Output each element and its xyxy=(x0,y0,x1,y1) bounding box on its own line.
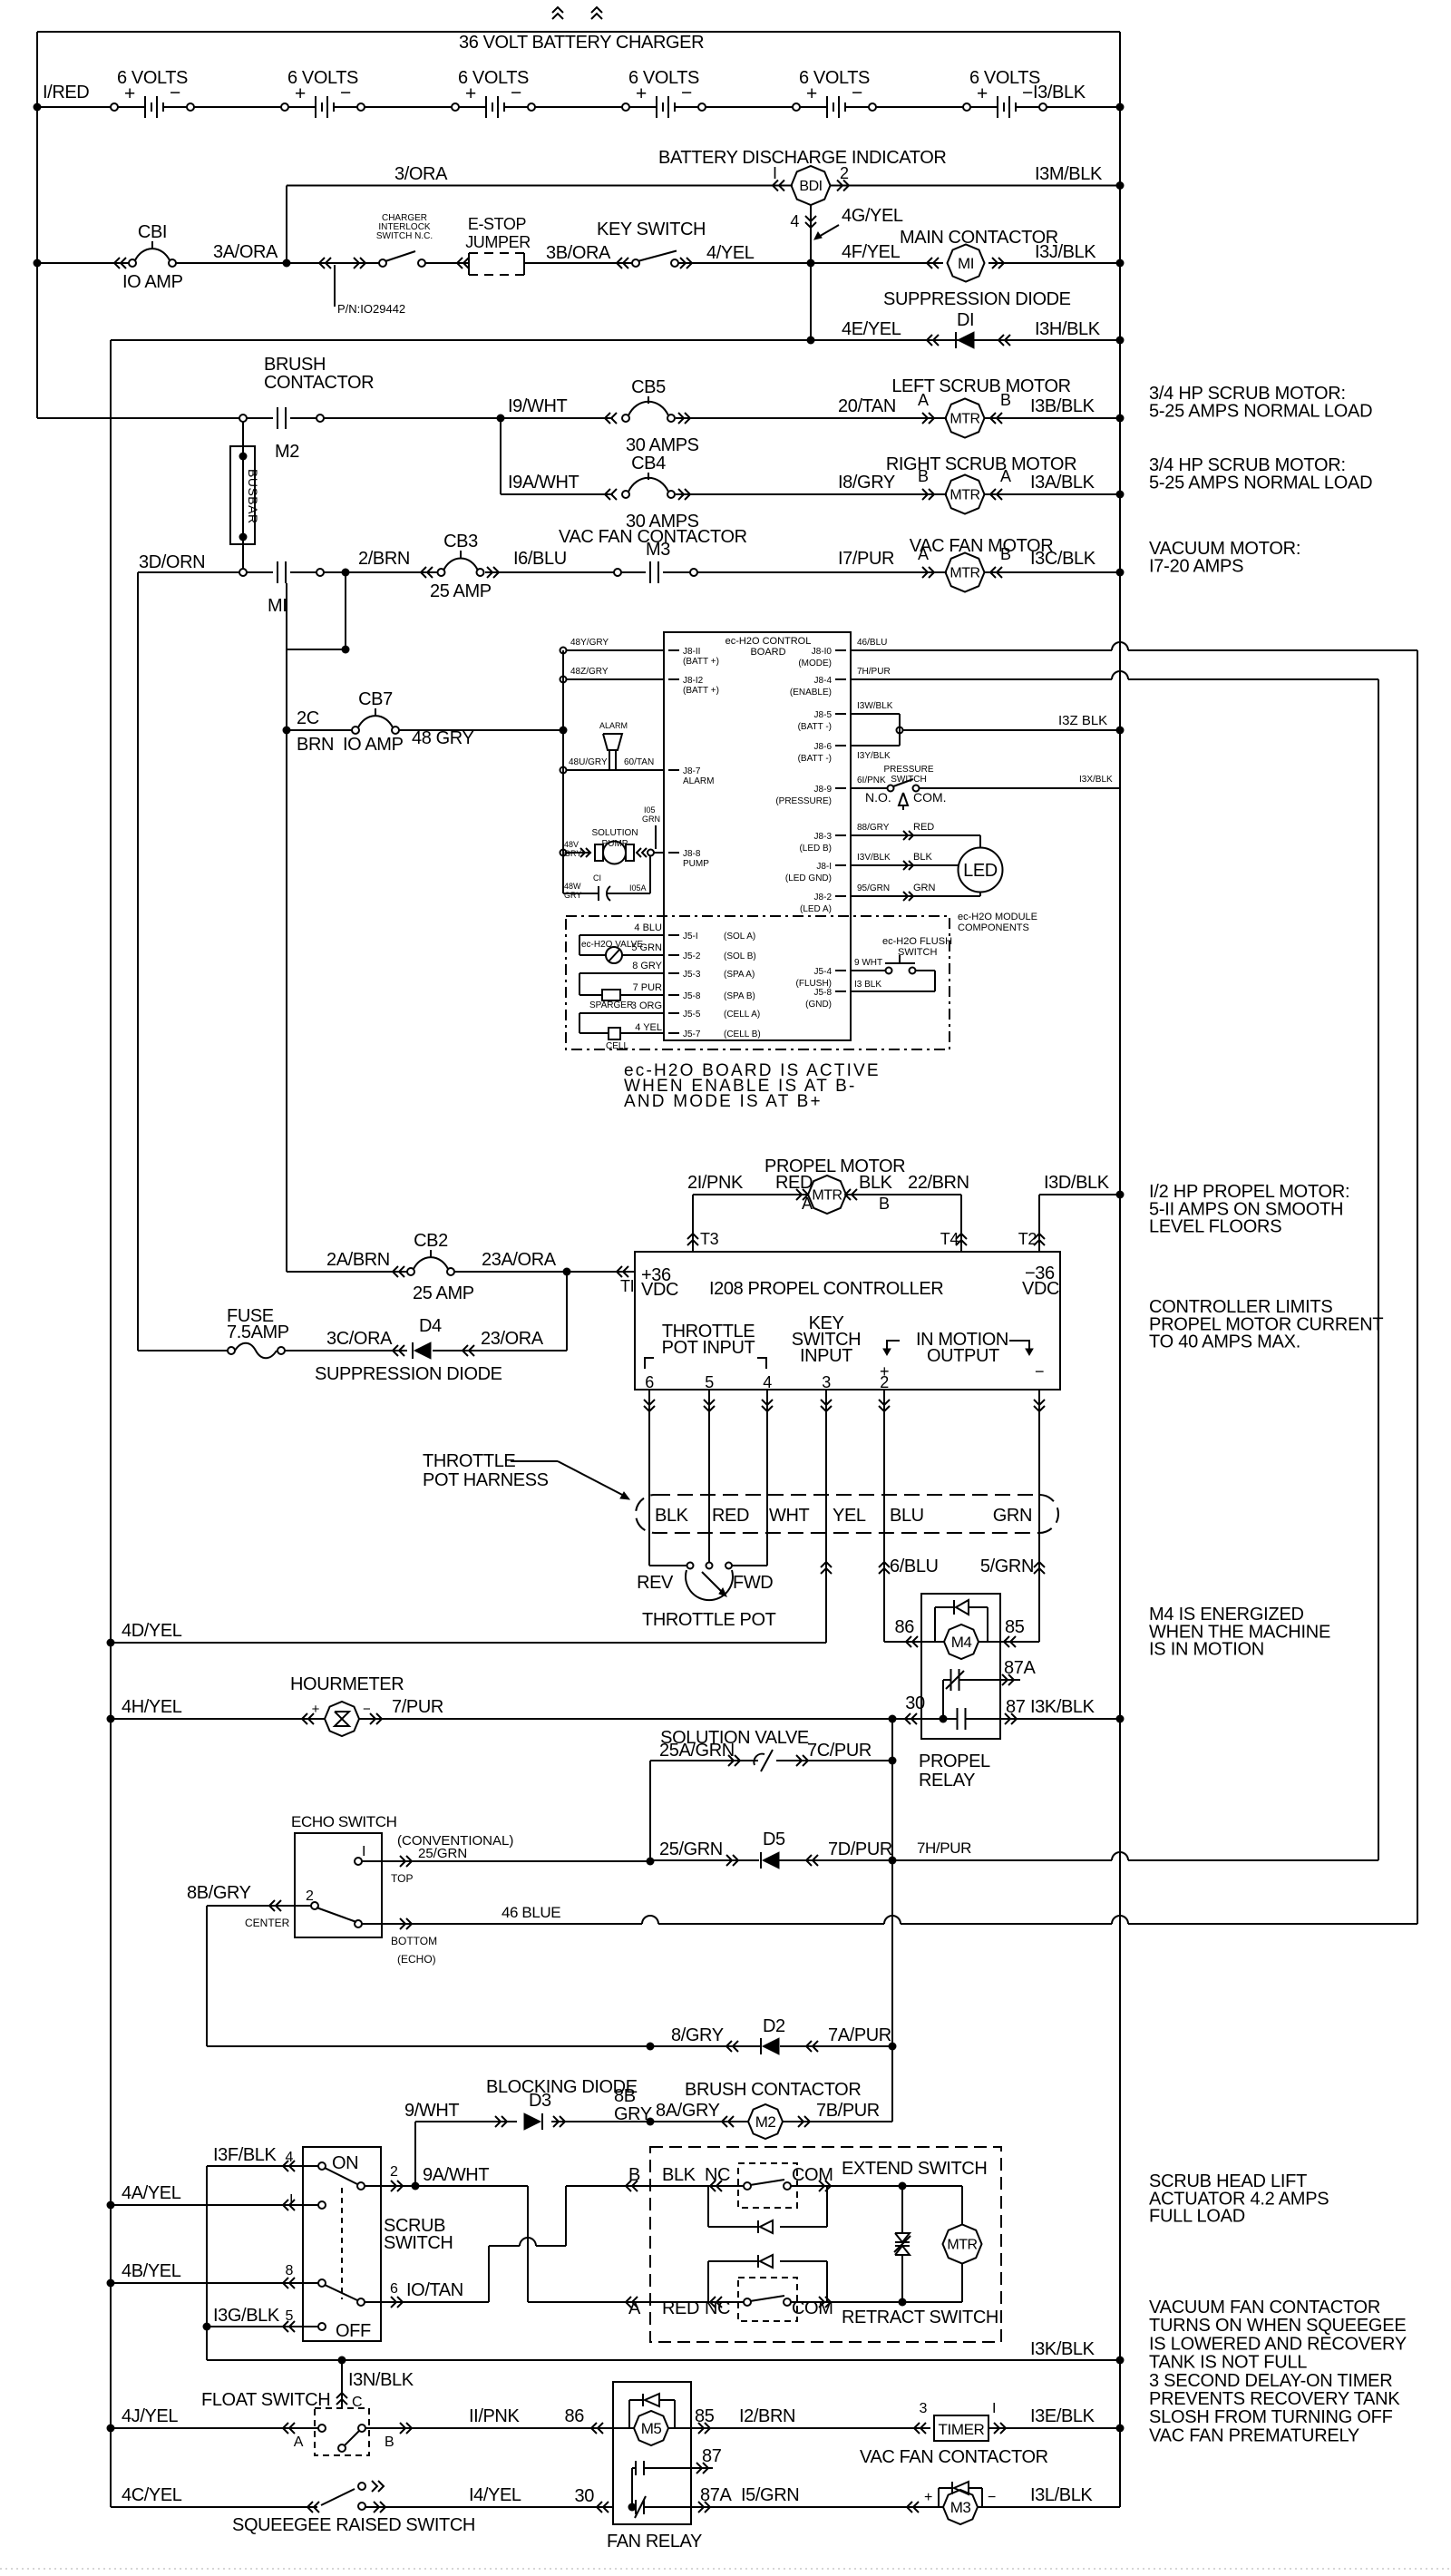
svg-text:3A/ORA: 3A/ORA xyxy=(213,242,278,262)
svg-text:RED: RED xyxy=(775,1173,813,1193)
svg-text:MI: MI xyxy=(958,255,974,272)
svg-text:I3G/BLK: I3G/BLK xyxy=(213,2306,280,2326)
svg-text:I3V/BLK: I3V/BLK xyxy=(857,853,891,863)
svg-text:M5: M5 xyxy=(641,2420,662,2437)
svg-text:5 GRN: 5 GRN xyxy=(631,942,662,953)
svg-text:BRUSH CONTACTOR: BRUSH CONTACTOR xyxy=(685,2080,861,2100)
svg-text:J8-I2: J8-I2 xyxy=(683,676,704,686)
svg-text:ALARM: ALARM xyxy=(599,721,628,730)
svg-text:RED: RED xyxy=(712,1506,749,1526)
svg-text:60/TAN: 60/TAN xyxy=(624,757,654,767)
svg-text:48Z/GRY: 48Z/GRY xyxy=(570,667,609,677)
svg-text:(SOL A): (SOL A) xyxy=(724,932,755,942)
svg-text:46 BLUE: 46 BLUE xyxy=(502,1904,560,1921)
svg-text:LEFT SCRUB MOTOR: LEFT SCRUB MOTOR xyxy=(891,376,1070,396)
svg-text:J5-7: J5-7 xyxy=(683,1029,701,1039)
svg-text:D5: D5 xyxy=(763,1830,785,1849)
svg-text:ec-H2O CONTROL: ec-H2O CONTROL xyxy=(725,636,812,647)
svg-text:30: 30 xyxy=(905,1693,925,1713)
svg-text:CI: CI xyxy=(593,873,601,883)
svg-text:ECHO SWITCH: ECHO SWITCH xyxy=(291,1813,396,1830)
svg-text:D4: D4 xyxy=(419,1316,442,1336)
svg-text:YEL: YEL xyxy=(833,1506,866,1526)
svg-text:VAC FAN CONTACTOR: VAC FAN CONTACTOR xyxy=(860,2447,1048,2467)
svg-text:I3L/BLK: I3L/BLK xyxy=(1030,2485,1093,2505)
svg-text:I3W/BLK: I3W/BLK xyxy=(857,701,893,711)
svg-text:87: 87 xyxy=(1006,1697,1026,1717)
svg-text:I3F/BLK: I3F/BLK xyxy=(213,2145,278,2165)
svg-text:N.O.: N.O. xyxy=(865,790,891,805)
svg-text:MTR: MTR xyxy=(949,566,979,581)
svg-text:7A/PUR: 7A/PUR xyxy=(828,2025,891,2045)
svg-text:CB3: CB3 xyxy=(443,532,478,551)
svg-text:(BATT -): (BATT -) xyxy=(798,722,832,732)
svg-text:CENTER: CENTER xyxy=(245,1917,290,1929)
svg-text:POT HARNESS: POT HARNESS xyxy=(423,1470,549,1490)
svg-text:7D/PUR: 7D/PUR xyxy=(828,1839,892,1859)
svg-text:BRUSH: BRUSH xyxy=(264,355,326,375)
svg-text:9/WHT: 9/WHT xyxy=(404,2101,459,2121)
svg-text:B: B xyxy=(385,2435,394,2450)
svg-text:8A/GRY: 8A/GRY xyxy=(656,2101,720,2121)
svg-text:CONTACTOR: CONTACTOR xyxy=(264,373,374,393)
svg-text:BLK: BLK xyxy=(655,1506,689,1526)
svg-text:7.5AMP: 7.5AMP xyxy=(227,1322,289,1342)
svg-text:SUPPRESSION DIODE: SUPPRESSION DIODE xyxy=(883,289,1071,309)
svg-text:9A/WHT: 9A/WHT xyxy=(423,2165,489,2185)
svg-text:48Y/GRY: 48Y/GRY xyxy=(570,638,609,648)
svg-text:CELL: CELL xyxy=(606,1041,628,1051)
svg-text:VAC FAN MOTOR: VAC FAN MOTOR xyxy=(910,536,1054,556)
svg-text:SUPPRESSION DIODE: SUPPRESSION DIODE xyxy=(315,1364,502,1384)
svg-text:(SOL B): (SOL B) xyxy=(724,951,756,961)
svg-text:CB4: CB4 xyxy=(631,454,666,473)
svg-text:FLOAT SWITCH: FLOAT SWITCH xyxy=(201,2390,330,2410)
svg-text:88/GRY: 88/GRY xyxy=(857,823,890,833)
svg-text:4 YEL: 4 YEL xyxy=(635,1022,662,1033)
svg-text:TO 40 AMPS MAX.: TO 40 AMPS MAX. xyxy=(1149,1332,1300,1352)
svg-text:BATTERY DISCHARGE INDICATOR: BATTERY DISCHARGE INDICATOR xyxy=(658,148,946,168)
svg-text:25 AMP: 25 AMP xyxy=(430,581,492,601)
svg-text:MTR: MTR xyxy=(947,2238,977,2253)
svg-text:COM.: COM. xyxy=(913,790,947,805)
svg-text:SWITCH: SWITCH xyxy=(891,775,926,785)
svg-text:−: − xyxy=(1035,1362,1044,1381)
svg-text:22/BRN: 22/BRN xyxy=(908,1173,969,1193)
svg-text:LED: LED xyxy=(963,861,998,881)
svg-text:I3E/BLK: I3E/BLK xyxy=(1030,2406,1096,2426)
svg-text:J5-8: J5-8 xyxy=(683,991,701,1001)
svg-text:(BATT -): (BATT -) xyxy=(798,754,832,764)
svg-text:KEY SWITCH: KEY SWITCH xyxy=(597,220,706,239)
svg-text:87A: 87A xyxy=(700,2485,732,2505)
svg-text:I6/BLU: I6/BLU xyxy=(513,549,567,569)
svg-text:VACUUM FAN CONTACTOR: VACUUM FAN CONTACTOR xyxy=(1149,2298,1380,2317)
svg-text:COMPONENTS: COMPONENTS xyxy=(958,922,1029,933)
svg-text:J5-2: J5-2 xyxy=(683,951,701,961)
svg-text:2: 2 xyxy=(306,1888,314,1904)
svg-text:AND MODE IS AT B+: AND MODE IS AT B+ xyxy=(624,1092,823,1111)
svg-text:J5-3: J5-3 xyxy=(683,970,701,980)
svg-text:7B/PUR: 7B/PUR xyxy=(816,2101,880,2121)
svg-text:I3 BLK: I3 BLK xyxy=(854,980,881,990)
svg-text:4E/YEL: 4E/YEL xyxy=(842,319,901,339)
svg-text:REV: REV xyxy=(637,1573,674,1593)
svg-text:5-25 AMPS NORMAL LOAD: 5-25 AMPS NORMAL LOAD xyxy=(1149,473,1372,493)
svg-text:7/PUR: 7/PUR xyxy=(392,1697,443,1717)
svg-text:NC: NC xyxy=(705,2165,730,2185)
svg-text:J5-I: J5-I xyxy=(683,932,698,942)
svg-text:4B/YEL: 4B/YEL xyxy=(122,2261,181,2281)
svg-text:E-STOP: E-STOP xyxy=(468,215,527,233)
svg-text:TANK IS NOT FULL: TANK IS NOT FULL xyxy=(1149,2353,1307,2373)
svg-text:5-25 AMPS NORMAL LOAD: 5-25 AMPS NORMAL LOAD xyxy=(1149,401,1372,421)
svg-text:+: + xyxy=(312,1702,320,1717)
svg-text:3: 3 xyxy=(920,2401,928,2416)
svg-text:RELAY: RELAY xyxy=(919,1771,975,1791)
svg-text:(PRESSURE): (PRESSURE) xyxy=(775,796,832,806)
svg-text:6/BLU: 6/BLU xyxy=(890,1556,939,1576)
svg-text:I5/GRN: I5/GRN xyxy=(741,2485,799,2505)
svg-text:BLK: BLK xyxy=(662,2165,696,2185)
svg-text:VAC FAN PREMATURELY: VAC FAN PREMATURELY xyxy=(1149,2425,1359,2445)
svg-text:6 VOLTS: 6 VOLTS xyxy=(799,68,870,88)
svg-text:7H/PUR: 7H/PUR xyxy=(857,667,891,677)
svg-text:+: + xyxy=(924,2490,932,2505)
svg-text:48V: 48V xyxy=(564,840,579,849)
svg-text:36 VOLT BATTERY CHARGER: 36 VOLT BATTERY CHARGER xyxy=(459,33,704,53)
svg-text:2/BRN: 2/BRN xyxy=(358,549,410,569)
svg-text:25/GRN: 25/GRN xyxy=(659,1839,723,1859)
svg-text:48U/GRY: 48U/GRY xyxy=(569,757,608,767)
svg-text:4F/YEL: 4F/YEL xyxy=(842,242,901,262)
svg-text:BLU: BLU xyxy=(890,1506,924,1526)
svg-text:J8-2: J8-2 xyxy=(814,893,833,903)
svg-text:9 WHT: 9 WHT xyxy=(854,958,882,968)
svg-text:4J/YEL: 4J/YEL xyxy=(122,2406,178,2426)
svg-text:OUTPUT: OUTPUT xyxy=(927,1346,999,1366)
svg-text:T3: T3 xyxy=(700,1230,719,1248)
svg-text:6 VOLTS: 6 VOLTS xyxy=(287,68,358,88)
svg-text:3: 3 xyxy=(822,1373,831,1391)
svg-text:8: 8 xyxy=(286,2263,294,2278)
svg-text:IS IN MOTION: IS IN MOTION xyxy=(1149,1640,1264,1660)
svg-text:I: I xyxy=(992,2401,996,2416)
svg-text:I3B/BLK: I3B/BLK xyxy=(1030,396,1096,416)
svg-text:(GND): (GND) xyxy=(805,1000,832,1010)
svg-text:SLOSH FROM TURNING OFF: SLOSH FROM TURNING OFF xyxy=(1149,2407,1393,2427)
svg-text:M2: M2 xyxy=(275,442,299,462)
svg-text:4 BLU: 4 BLU xyxy=(634,922,662,933)
svg-text:M2: M2 xyxy=(755,2113,776,2131)
svg-text:MTR: MTR xyxy=(949,412,979,427)
svg-text:8/GRY: 8/GRY xyxy=(671,2025,724,2045)
svg-text:−: − xyxy=(988,2490,996,2505)
svg-text:(MODE): (MODE) xyxy=(798,659,832,668)
svg-text:I: I xyxy=(362,1844,365,1859)
svg-text:87: 87 xyxy=(702,2446,722,2466)
svg-text:P/N:IO29442: P/N:IO29442 xyxy=(337,302,405,316)
svg-text:I208 PROPEL CONTROLLER: I208 PROPEL CONTROLLER xyxy=(709,1279,943,1299)
svg-text:2C: 2C xyxy=(297,708,319,728)
svg-text:(BATT +): (BATT +) xyxy=(683,686,719,696)
svg-text:95/GRN: 95/GRN xyxy=(857,883,890,893)
svg-text:I4/YEL: I4/YEL xyxy=(469,2485,521,2505)
svg-text:23A/ORA: 23A/ORA xyxy=(482,1250,557,1270)
svg-text:I: I xyxy=(773,164,777,182)
svg-text:I7-20 AMPS: I7-20 AMPS xyxy=(1149,556,1243,576)
svg-text:J5-8: J5-8 xyxy=(814,988,833,998)
svg-text:I7/PUR: I7/PUR xyxy=(838,549,894,569)
svg-text:M3: M3 xyxy=(646,540,670,560)
svg-text:2I/PNK: 2I/PNK xyxy=(687,1173,744,1193)
svg-text:SOLUTION: SOLUTION xyxy=(591,828,638,838)
svg-text:BOARD: BOARD xyxy=(750,647,785,658)
svg-text:6 VOLTS: 6 VOLTS xyxy=(628,68,699,88)
svg-text:I3Y/BLK: I3Y/BLK xyxy=(857,751,891,761)
svg-text:VDC: VDC xyxy=(1022,1279,1059,1299)
svg-text:GRY: GRY xyxy=(564,849,581,858)
svg-text:(LED GND): (LED GND) xyxy=(785,873,832,883)
svg-text:6: 6 xyxy=(645,1373,654,1391)
svg-text:THROTTLE: THROTTLE xyxy=(423,1451,515,1471)
svg-text:SQUEEGEE RAISED SWITCH: SQUEEGEE RAISED SWITCH xyxy=(232,2515,475,2535)
svg-text:BUSBAR: BUSBAR xyxy=(246,469,260,524)
svg-text:ALARM: ALARM xyxy=(683,776,714,786)
svg-text:BOTTOM: BOTTOM xyxy=(391,1935,437,1947)
svg-text:6I/PNK: 6I/PNK xyxy=(857,776,886,785)
svg-text:I05: I05 xyxy=(644,805,656,815)
svg-text:TOP: TOP xyxy=(391,1872,413,1885)
svg-text:4C/YEL: 4C/YEL xyxy=(122,2485,182,2505)
svg-text:8B/GRY: 8B/GRY xyxy=(187,1883,251,1903)
svg-text:IS LOWERED AND RECOVERY: IS LOWERED AND RECOVERY xyxy=(1149,2334,1407,2354)
svg-text:4/YEL: 4/YEL xyxy=(706,243,755,263)
svg-text:25 AMP: 25 AMP xyxy=(413,1283,474,1303)
svg-text:POT INPUT: POT INPUT xyxy=(662,1338,755,1358)
svg-text:I3K/BLK: I3K/BLK xyxy=(1030,2339,1096,2359)
svg-text:HOURMETER: HOURMETER xyxy=(290,1674,404,1694)
svg-text:4D/YEL: 4D/YEL xyxy=(122,1621,182,1641)
svg-text:J8-5: J8-5 xyxy=(814,710,833,720)
svg-text:(BATT +): (BATT +) xyxy=(683,657,719,667)
svg-text:SWITCH N.C.: SWITCH N.C. xyxy=(376,231,433,241)
svg-text:ec-H2O MODULE: ec-H2O MODULE xyxy=(958,912,1037,922)
svg-text:A: A xyxy=(802,1195,813,1213)
svg-text:SPARGER: SPARGER xyxy=(589,1000,633,1010)
svg-text:(CELL B): (CELL B) xyxy=(724,1029,761,1039)
svg-text:7H/PUR: 7H/PUR xyxy=(917,1839,971,1857)
svg-text:D2: D2 xyxy=(763,2016,785,2036)
svg-text:85: 85 xyxy=(1005,1617,1025,1637)
svg-text:46/BLU: 46/BLU xyxy=(857,638,887,648)
svg-text:I3N/BLK: I3N/BLK xyxy=(348,2370,414,2390)
svg-text:6 VOLTS: 6 VOLTS xyxy=(969,68,1040,88)
svg-text:I3H/BLK: I3H/BLK xyxy=(1035,319,1101,339)
svg-text:I3M/BLK: I3M/BLK xyxy=(1035,164,1103,184)
svg-text:SWITCH: SWITCH xyxy=(384,2233,453,2253)
svg-text:I9/WHT: I9/WHT xyxy=(508,396,568,416)
svg-text:6 VOLTS: 6 VOLTS xyxy=(458,68,529,88)
svg-text:2: 2 xyxy=(840,164,849,182)
svg-text:I3/BLK: I3/BLK xyxy=(1033,83,1086,102)
svg-text:A: A xyxy=(628,2298,641,2318)
svg-text:86: 86 xyxy=(895,1617,915,1637)
svg-text:FWD: FWD xyxy=(733,1573,773,1593)
svg-text:PREVENTS RECOVERY TANK: PREVENTS RECOVERY TANK xyxy=(1149,2389,1400,2409)
svg-text:7C/PUR: 7C/PUR xyxy=(807,1741,872,1761)
svg-text:INPUT: INPUT xyxy=(800,1346,852,1366)
svg-text:J8-I: J8-I xyxy=(816,862,832,872)
svg-text:4A/YEL: 4A/YEL xyxy=(122,2183,181,2203)
svg-text:5: 5 xyxy=(286,2308,294,2324)
svg-text:WHT: WHT xyxy=(769,1506,810,1526)
svg-text:ON: ON xyxy=(332,2153,358,2173)
svg-text:GRN: GRN xyxy=(913,883,936,893)
svg-text:CB7: CB7 xyxy=(358,689,393,709)
svg-text:DI: DI xyxy=(957,310,974,330)
svg-text:30 AMPS: 30 AMPS xyxy=(626,435,699,455)
svg-text:48 GRY: 48 GRY xyxy=(412,728,473,748)
svg-text:I3X/BLK: I3X/BLK xyxy=(1079,775,1113,785)
svg-text:J8-9: J8-9 xyxy=(814,785,833,795)
svg-text:FULL LOAD: FULL LOAD xyxy=(1149,2207,1245,2227)
svg-text:T4: T4 xyxy=(940,1230,959,1248)
svg-text:(ENABLE): (ENABLE) xyxy=(790,688,832,698)
svg-text:CB2: CB2 xyxy=(414,1231,448,1251)
svg-text:RED: RED xyxy=(913,822,934,833)
svg-text:I3A/BLK: I3A/BLK xyxy=(1030,473,1096,493)
svg-text:BRN: BRN xyxy=(297,735,334,755)
svg-text:TIMER: TIMER xyxy=(939,2421,985,2438)
svg-text:20/TAN: 20/TAN xyxy=(838,396,896,416)
svg-text:ec-H2O FLUSH: ec-H2O FLUSH xyxy=(882,936,952,947)
svg-text:EXTEND SWITCH: EXTEND SWITCH xyxy=(842,2159,987,2179)
svg-text:25/GRN: 25/GRN xyxy=(418,1846,467,1861)
svg-text:BLOCKING DIODE: BLOCKING DIODE xyxy=(486,2077,638,2097)
svg-text:B: B xyxy=(879,1195,890,1213)
svg-text:MTR: MTR xyxy=(812,1188,842,1204)
svg-text:3/ORA: 3/ORA xyxy=(394,164,448,184)
svg-text:VDC: VDC xyxy=(641,1280,678,1300)
svg-text:PUMP: PUMP xyxy=(602,839,628,849)
svg-text:2A/BRN: 2A/BRN xyxy=(326,1250,390,1270)
svg-text:4H/YEL: 4H/YEL xyxy=(122,1697,182,1717)
svg-text:MI: MI xyxy=(268,596,287,616)
svg-text:RED: RED xyxy=(662,2298,699,2318)
svg-text:BLK: BLK xyxy=(913,852,932,863)
svg-text:I3D/BLK: I3D/BLK xyxy=(1044,1173,1110,1193)
svg-text:3D/ORN: 3D/ORN xyxy=(139,552,205,572)
svg-text:I/RED: I/RED xyxy=(43,83,89,102)
svg-text:II/PNK: II/PNK xyxy=(469,2406,520,2426)
svg-text:PRESSURE: PRESSURE xyxy=(883,765,933,775)
svg-text:3B/ORA: 3B/ORA xyxy=(546,243,611,263)
svg-text:J8-I0: J8-I0 xyxy=(812,647,833,657)
svg-text:M3: M3 xyxy=(950,2499,971,2516)
svg-text:5: 5 xyxy=(705,1373,714,1391)
svg-text:3 SECOND DELAY-ON TIMER: 3 SECOND DELAY-ON TIMER xyxy=(1149,2371,1392,2391)
svg-text:(ECHO): (ECHO) xyxy=(397,1953,436,1966)
svg-text:JUMPER: JUMPER xyxy=(465,233,531,251)
svg-text:IO AMP: IO AMP xyxy=(343,735,404,755)
svg-text:B: B xyxy=(628,2165,640,2185)
svg-text:87A: 87A xyxy=(1004,1658,1036,1678)
svg-text:3C/ORA: 3C/ORA xyxy=(326,1329,393,1349)
svg-text:OFF: OFF xyxy=(336,2321,371,2341)
svg-text:5/GRN: 5/GRN xyxy=(980,1556,1034,1576)
svg-text:30: 30 xyxy=(575,2486,595,2506)
svg-text:BLK: BLK xyxy=(859,1173,893,1193)
svg-text:4: 4 xyxy=(790,212,799,230)
svg-text:(SPA B): (SPA B) xyxy=(724,991,755,1001)
svg-text:I05A: I05A xyxy=(629,883,647,893)
svg-text:GRN: GRN xyxy=(642,815,660,824)
svg-text:FAN RELAY: FAN RELAY xyxy=(607,2532,702,2552)
svg-text:7 PUR: 7 PUR xyxy=(633,982,662,993)
svg-text:J8-3: J8-3 xyxy=(814,832,833,842)
svg-text:J8-4: J8-4 xyxy=(814,676,833,686)
svg-text:23/ORA: 23/ORA xyxy=(481,1329,544,1349)
svg-text:6 VOLTS: 6 VOLTS xyxy=(117,68,188,88)
svg-text:J5-4: J5-4 xyxy=(814,967,833,977)
svg-text:IO AMP: IO AMP xyxy=(122,272,183,292)
svg-text:I3K/BLK: I3K/BLK xyxy=(1030,1697,1096,1717)
svg-text:RIGHT SCRUB MOTOR: RIGHT SCRUB MOTOR xyxy=(886,454,1076,474)
svg-text:8 GRY: 8 GRY xyxy=(632,961,662,971)
svg-text:PROPEL: PROPEL xyxy=(919,1751,990,1771)
svg-text:J5-5: J5-5 xyxy=(683,1010,701,1020)
svg-text:CBI: CBI xyxy=(138,222,167,242)
svg-text:GRY: GRY xyxy=(564,891,581,900)
svg-text:I3Z BLK: I3Z BLK xyxy=(1058,713,1107,728)
svg-text:J8-II: J8-II xyxy=(683,647,700,657)
svg-text:4: 4 xyxy=(763,1373,772,1391)
svg-text:J8-8: J8-8 xyxy=(683,849,701,859)
svg-text:(LED B): (LED B) xyxy=(799,844,832,854)
svg-text:(LED A): (LED A) xyxy=(800,904,832,914)
svg-text:J8-7: J8-7 xyxy=(683,766,701,776)
svg-text:T2: T2 xyxy=(1018,1230,1037,1248)
svg-text:3 ORG: 3 ORG xyxy=(631,1000,662,1011)
svg-text:TI: TI xyxy=(620,1277,634,1295)
svg-text:J8-6: J8-6 xyxy=(814,742,833,752)
svg-text:(CELL A): (CELL A) xyxy=(724,1010,760,1020)
svg-text:I8/GRY: I8/GRY xyxy=(838,473,895,493)
svg-text:25A/GRN: 25A/GRN xyxy=(659,1741,735,1761)
svg-text:(SPA A): (SPA A) xyxy=(724,970,755,980)
svg-text:BDI: BDI xyxy=(799,179,822,194)
svg-text:48W: 48W xyxy=(564,882,581,891)
svg-text:RETRACT SWITCH: RETRACT SWITCH xyxy=(842,2308,998,2327)
svg-text:A: A xyxy=(294,2435,304,2450)
svg-text:PUMP: PUMP xyxy=(683,859,709,869)
svg-text:LEVEL FLOORS: LEVEL FLOORS xyxy=(1149,1217,1281,1237)
svg-text:MAIN CONTACTOR: MAIN CONTACTOR xyxy=(900,228,1058,248)
svg-text:2: 2 xyxy=(390,2164,398,2180)
svg-text:I9A/WHT: I9A/WHT xyxy=(508,473,579,493)
svg-text:THROTTLE POT: THROTTLE POT xyxy=(642,1610,776,1630)
svg-text:TURNS ON WHEN SQUEEGEE: TURNS ON WHEN SQUEEGEE xyxy=(1149,2316,1406,2336)
svg-text:86: 86 xyxy=(565,2406,585,2426)
svg-text:M4: M4 xyxy=(951,1634,972,1651)
svg-text:SWITCH: SWITCH xyxy=(898,947,937,958)
svg-text:−: − xyxy=(363,1702,371,1717)
svg-text:CB5: CB5 xyxy=(631,377,666,397)
svg-text:2: 2 xyxy=(880,1373,889,1391)
svg-text:4G/YEL: 4G/YEL xyxy=(842,206,903,226)
svg-text:MTR: MTR xyxy=(949,488,979,503)
